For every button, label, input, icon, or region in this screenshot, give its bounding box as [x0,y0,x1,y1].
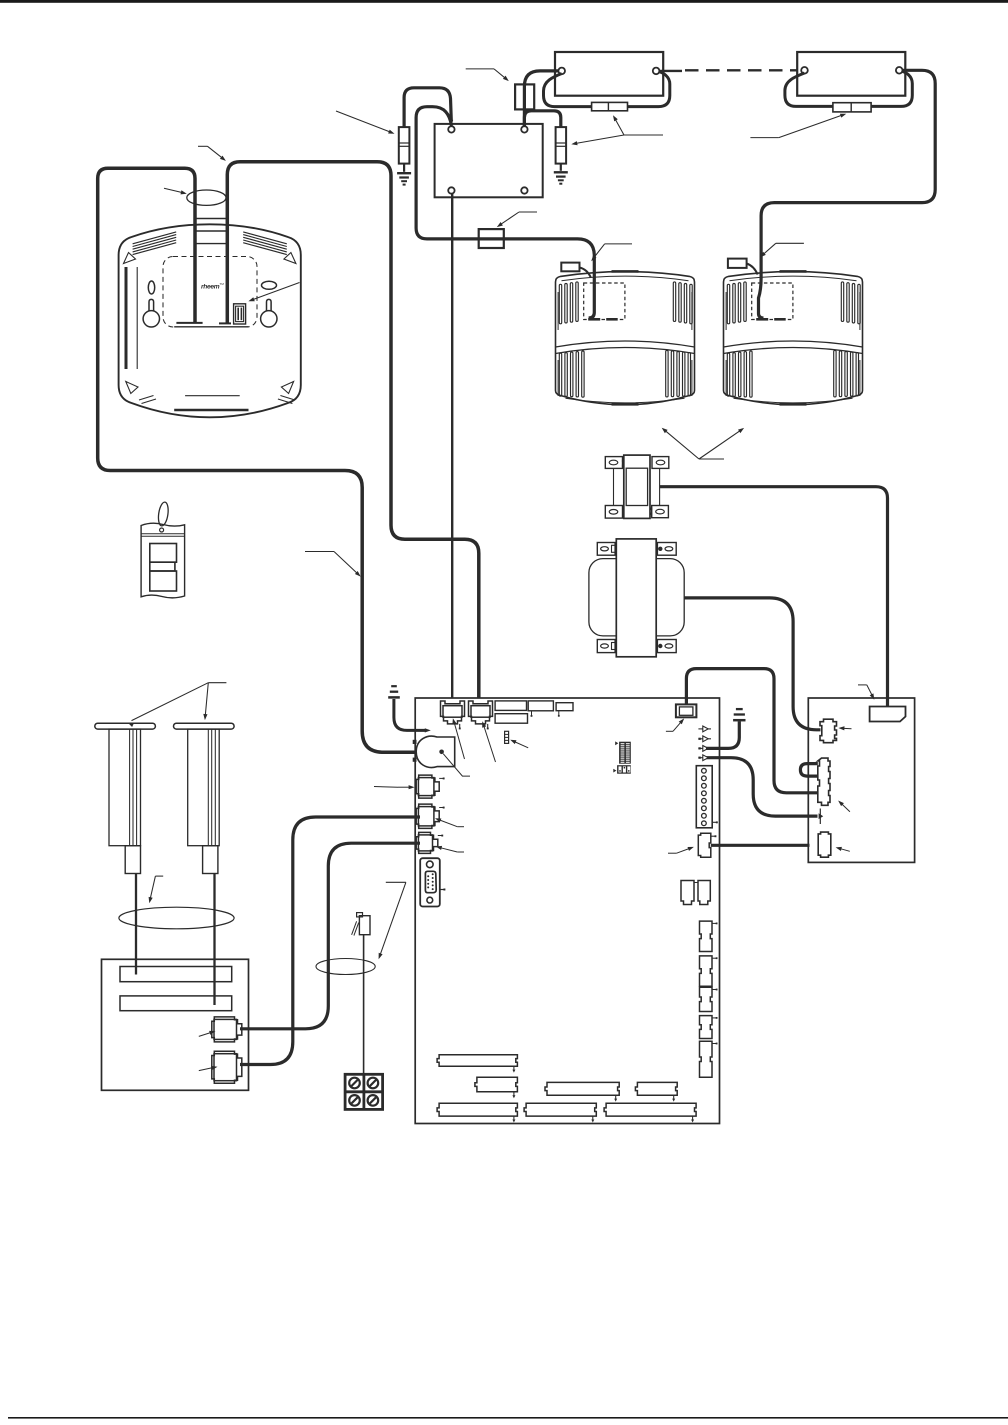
board DIP switch [619,742,631,764]
interface jack B [212,1051,242,1083]
housing vent slots [559,284,561,324]
leader to probes [208,682,226,684]
sensor housing outline [556,272,695,405]
in-line connector [479,229,504,248]
terminal strip [545,1082,619,1095]
plate inner dashed rect [163,257,257,328]
sensor inside bag [150,544,177,563]
terminal screw [368,1078,379,1089]
board LED header [505,731,509,743]
leader to sensor 2 cable [776,242,804,244]
large transformer tab TR [657,543,676,556]
leader to sensor 1 cable [605,243,632,245]
leader into J2 [484,726,496,763]
large transformer tab BR [657,640,676,653]
wire from light bar 1 through in-line fuse to module [524,71,558,126]
probe cap [95,723,156,729]
plate left inner bar [125,267,128,369]
leader to plug grommet [386,881,406,883]
small transformer tab TR [652,457,669,469]
light bar 1 left mounting hole [558,68,565,75]
accessory key terminal [819,809,821,825]
board edge pins 1-4 [698,728,711,730]
wire module TR screw to right fuse [524,111,560,127]
terminal strip [604,1103,696,1116]
leader to cable bend [198,145,208,147]
housing vent slots [727,284,729,324]
small transformer link bars [613,468,615,505]
sensor housing outline [724,272,863,405]
housing top/bottom accents [612,270,639,273]
plate keyhole left [149,299,154,312]
small transformer tab TL [605,457,622,469]
board relay A [495,701,526,711]
board relay D [556,703,573,711]
board jack J5 [416,832,438,853]
leader into J4 [457,826,464,828]
sensor 1 cable connector tag [561,263,579,272]
leader into jack B [199,1067,215,1070]
terminal strip [437,1103,517,1116]
wire jack A to board J5 [240,843,420,1029]
svg-text:rheem: rheem [201,284,220,291]
dashed wire between light bars [685,69,797,71]
probe lead wire [213,874,215,1006]
board edge connector (to accessory) [698,833,711,857]
control board outline [415,698,719,1124]
light bar 2 left mounting hole [801,67,808,74]
probe body [109,729,141,846]
plate keyhole slot right [262,281,277,289]
leader to LED header [513,741,528,748]
terminal strip [437,1055,517,1067]
small transformer core [624,455,650,518]
sensor 2 cable connector tag [728,259,747,268]
board jack J2 (thermostat) [469,701,493,724]
probe collet [125,846,140,874]
thermostat cable left run [98,168,415,752]
heavy dashes on dashed box base [588,318,600,321]
heavy dashes on dashed box base [756,318,768,321]
board DB9 connector [420,858,440,906]
leader to plate terminal block [251,283,299,301]
cable grommet ellipse [187,190,226,205]
interface bar 2 [120,996,232,1011]
terminal strip [524,1103,596,1116]
terminal screw [368,1095,379,1106]
board right relay column [700,921,713,951]
light bar 1 right mounting hole [653,68,660,75]
housing edge lines [725,292,727,330]
ground stem arrow into board [394,699,426,730]
probe collet [203,846,218,874]
probe cap [174,723,235,729]
leader to connector 2 [841,803,850,812]
leader to in-line connector [519,211,537,213]
in-line fuse holder [515,84,534,109]
bag hang loop [157,501,169,526]
light bar 2 wiring loop [785,71,912,106]
board top-right connector [676,704,697,717]
plate corner mark BR [281,382,293,394]
sensor mounting dashed box [584,283,625,320]
board jack J1 (comms) [441,701,465,724]
wire board pin 4 to accessory key terminal [705,758,818,816]
leader to in-line fuse [466,68,494,70]
accessory connector 3 [818,832,831,857]
housing inner lips [562,276,689,281]
wire board top connector to accessory box connector 2 [686,669,817,793]
leader to top-right connector [666,730,673,732]
accessory connector 1 [820,719,837,743]
interface jack A [212,1017,242,1042]
board jumper block [617,765,631,774]
leader to connector 3 [839,848,850,851]
small transformer tab BL [605,506,622,519]
interface box outline [102,959,249,1090]
large transformer winding [616,539,656,657]
light bar module 1 outline [555,52,663,96]
light bar 2 terminal block [833,103,871,112]
wire large transformer to accessory box connector 1 [684,598,820,730]
light bar module 2 outline [797,52,905,96]
sensor mounting dashed box [752,283,793,320]
module screw TR [521,126,527,132]
probe lead wire [135,874,137,975]
leader to left cable [305,551,334,553]
wire jack B to board J4 [240,817,420,1065]
light bar 1 wiring loop [544,72,670,107]
housing middle band [724,341,863,347]
plate keyhole right [267,299,272,312]
board relay B [495,714,527,724]
accessory module box [808,698,914,862]
wire module TL screw to in-line connector to sensor 1 [416,107,594,318]
board jack J4 [416,804,439,828]
board jack J3 [416,775,439,798]
left fuse [399,127,410,164]
board buzzer [416,736,455,767]
accessory bag [141,523,185,598]
ground wire to pin 3 [706,722,739,749]
wire from light bar 2 to sensor 2 [761,70,935,253]
plug lead wire [363,935,365,1075]
housing inner lips [730,276,857,281]
leader to probe grommet [155,875,163,877]
bottom page rule [8,1417,1008,1419]
board ground (right) [736,708,743,710]
terminal screw [349,1095,360,1106]
accessory terminal plate [870,707,906,722]
board ground (top-left) [391,685,397,687]
light bar 2 right mounting hole [896,67,903,74]
thermostat cable right run [227,162,478,698]
arrow to grommet [164,188,184,193]
thermostat wall plate outline [119,224,301,417]
terminal screw [349,1078,360,1089]
plate vents top-left [133,232,177,244]
accessory connector 2 [818,758,830,805]
leader to left fuse [336,111,392,133]
leader to terminal plate [858,684,867,686]
module screw BL [448,187,454,193]
wire left fuse to module TL screw [404,88,451,127]
board relay pair (vertical) [681,881,694,905]
interface bar 1 [120,967,232,982]
leader to light bar 1 terminal and right fuse [624,134,663,136]
cable ribbon rungs [195,218,227,220]
right fuse [556,127,567,164]
probe body [188,729,220,846]
connector 2 U-loop [800,764,817,777]
arrow into J3 [374,786,398,789]
core clip marks [622,460,624,463]
leader into jack A [199,1032,213,1036]
wire board edge connector to accessory connector 3 [711,844,810,847]
wire small transformer to accessory box terminal [660,487,888,706]
module screw BR [521,187,527,193]
plate bottom hatch left [139,396,154,401]
sensor 2 wire tail inside housing [759,253,764,318]
screw terminal block [345,1074,383,1109]
cable end ticks in plate [176,322,202,324]
plate corner mark TR [284,253,296,264]
duct mounting arrows [699,458,724,460]
housing middle band [556,341,695,347]
leader to connector 1 [842,727,852,730]
probe wires grommet [119,907,234,929]
svg-text:TM: TM [220,282,225,286]
board relay C [528,701,553,711]
terminal strip [475,1077,518,1092]
ground below left fuse [403,164,405,172]
leader to light bar 2 terminal [750,137,778,139]
housing top/bottom accents [780,270,807,273]
module screw TL [448,126,454,132]
large transformer tab BL [597,640,615,653]
light bar 1 terminal block [592,102,628,110]
plate vents top-right [243,232,287,244]
plate bottom lines [185,395,240,397]
leader from buzzer dot [443,754,470,776]
terminal strip [635,1082,677,1095]
large transformer body [589,559,684,636]
leader into J1 [454,723,464,760]
wire from light bar 1 right hole [659,70,682,72]
leader into J5 [457,851,464,853]
housing edge lines [557,292,559,330]
leader to edge connector [668,852,677,854]
plate terminal block [234,304,246,324]
board 8-pin terminal strip [696,766,712,828]
top page rule [0,0,1008,3]
plug wire grommet [316,959,375,975]
ground below right fuse [560,164,562,171]
large transformer tab TL [597,543,615,556]
plate corner mark TL [124,253,136,264]
plate corner mark BL [126,382,138,394]
plate bottom hatch right [280,396,295,401]
small transformer tab BR [652,506,669,518]
power supply module outline [435,124,543,197]
modular plug [359,916,370,935]
wire module BL screw to board jack 1 [451,194,453,698]
plate keyhole slot left [148,281,154,294]
bag grommet [160,528,164,532]
